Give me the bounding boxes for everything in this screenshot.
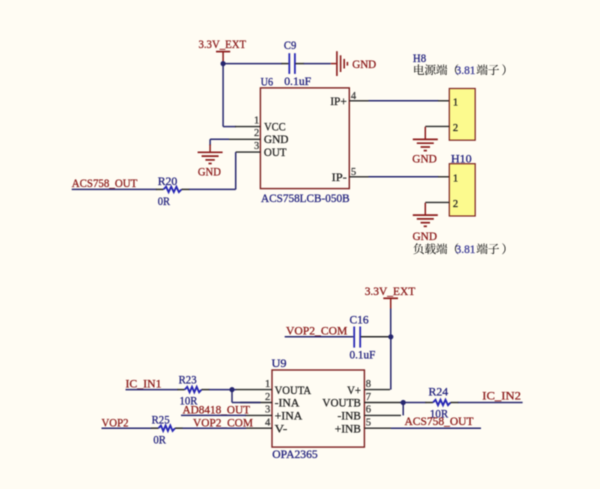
U9 pin 3 +INA [245,405,303,423]
ground symbol under H10 [413,203,438,243]
svg-text:IC_IN1: IC_IN1 [126,376,162,390]
svg-text:3: 3 [265,405,270,416]
svg-text:H8: H8 [413,51,426,65]
U6 pin 1 VCC [235,115,286,133]
wire U6 pin4 to H8 pin1 [369,100,450,102]
svg-text:R20: R20 [158,174,178,188]
svg-text:8: 8 [366,379,371,390]
net label ACS758_OUT (U9 pin5) [391,414,481,428]
svg-text:5: 5 [351,167,356,178]
U6 pin 2 GND [228,128,289,146]
resistor R23 10R [179,372,202,407]
svg-text:1: 1 [453,174,458,185]
U6 pin 4 IP+ [330,91,369,108]
net label ACS758_OUT [72,176,164,190]
svg-text:VOUTB: VOUTB [322,396,361,410]
U9 pin 2 -INA [240,392,300,410]
comment 负载端（3.81端子） [413,243,505,256]
net label IC_IN1 [126,376,185,390]
svg-text:VOUTA: VOUTA [275,383,312,397]
U9 pin 1 VOUTA [236,379,312,397]
junction under 3.3V_EXT [221,61,226,66]
svg-text:+INB: +INB [335,421,361,435]
capacitor C9 0.1uF [284,38,312,88]
wire U6 pin5 to H10 pin1 [369,176,450,178]
svg-text:C16: C16 [350,313,369,327]
resistor R25 0R [152,412,175,446]
svg-text:2: 2 [453,199,458,210]
ground symbol under H8 [412,127,438,166]
svg-text:3.3V_EXT: 3.3V_EXT [365,284,416,298]
svg-text:IC_IN2: IC_IN2 [482,389,521,403]
connector H8 [413,51,475,140]
svg-text:3: 3 [254,141,259,152]
svg-text:GND: GND [412,152,437,166]
net label IC_IN2 [451,389,523,403]
svg-text:R23: R23 [179,372,197,386]
svg-text:4: 4 [351,91,357,102]
junction on pin7 wire [401,400,406,405]
svg-text:GND: GND [352,57,376,71]
wire junction down to U9 pin8 [390,337,392,390]
wire C16 to junction [361,336,389,338]
svg-text:R24: R24 [429,385,449,399]
svg-text:VOP2_COM: VOP2_COM [193,415,253,429]
svg-text:U9: U9 [272,356,287,370]
svg-text:3.81: 3.81 [456,244,476,256]
svg-text:IP+: IP+ [330,94,347,108]
svg-text:2: 2 [265,392,270,403]
U9 pin 7 VOUTB [322,392,400,410]
ground symbol under U6 pin2 [198,145,223,179]
wire power to junction [390,309,392,337]
net label VOP2 [102,415,159,429]
wire U6 pin3 down to R20 net [235,152,237,189]
wire U6 pin2 to ground [210,139,229,145]
U9 pin 8 V+ [347,379,390,397]
svg-text:ACS758_OUT: ACS758_OUT [72,176,138,190]
svg-text:2: 2 [254,128,259,139]
capacitor C16 0.1uF [350,313,376,362]
resistor R20 0R [158,174,182,208]
U9 pin 5 +INB [335,418,392,436]
wire junction to U6 pin 1 [223,64,236,127]
svg-text:R25: R25 [152,412,170,426]
svg-text:VCC: VCC [264,119,286,133]
resistor R24 10R [429,385,451,421]
svg-text:GND: GND [264,132,289,146]
svg-text:VOP2: VOP2 [102,415,129,429]
wire R20 to U6 pin3 [182,188,190,190]
net label VOP2_COM (pin4 wire) [175,415,253,429]
svg-text:3.3V_EXT: 3.3V_EXT [198,37,246,51]
svg-text:7: 7 [366,392,371,403]
IC U6 ACS758LCB-050B body [260,75,349,205]
svg-text:OPA2365: OPA2365 [272,447,317,461]
svg-text:ACS758_OUT: ACS758_OUT [405,414,475,428]
wire H8 pin2 to ground [425,125,449,127]
svg-text:C9: C9 [284,38,297,52]
U6 pin 5 IP- [332,167,370,184]
comment 电源端（3.81端子） [414,64,505,77]
svg-text:ACS758LCB-050B: ACS758LCB-050B [261,191,350,205]
wire U9 pin6 up to junction [402,403,404,416]
wire junction to C9 [223,63,282,65]
IC U9 OPA2365 body [272,356,365,461]
svg-text:0R: 0R [158,194,170,208]
power ground GND (right of C9) [331,51,377,76]
svg-text:-INA: -INA [275,396,300,410]
wire R23 to U9 pin1 [202,389,210,391]
connector H10 [449,152,475,216]
svg-text:AD8418_OUT: AD8418_OUT [183,402,251,416]
U9 pin 4 V- [245,418,287,436]
svg-text:IP-: IP- [332,170,347,184]
svg-text:V-: V- [275,421,288,435]
power port 3.3V_EXT (bottom) [365,284,416,308]
junction at C16 [388,334,393,339]
power port 3.3V_EXT [198,37,246,63]
wire C9 to GND power port [296,63,305,65]
svg-text:V+: V+ [347,383,361,397]
svg-text:OUT: OUT [264,145,287,159]
svg-text:U6: U6 [261,75,274,89]
svg-text:VOP2_COM: VOP2_COM [286,324,348,338]
svg-text:1: 1 [254,115,259,126]
svg-text:5: 5 [366,418,371,429]
U6 pin 3 OUT [236,141,287,159]
svg-text:3.81: 3.81 [456,65,476,77]
wire junction down to pin2 [232,390,261,403]
wire H10 pin2 to ground [425,201,449,203]
svg-text:1: 1 [265,379,270,390]
svg-text:0R: 0R [153,432,166,446]
junction on pin1 wire [229,387,234,392]
wire U9 pin7 to R24 [400,402,426,404]
svg-text:1: 1 [453,98,458,109]
net label AD8418_OUT [181,402,251,416]
net label VOP2_COM (top) [285,324,354,338]
svg-text:4: 4 [265,418,271,429]
svg-text:GND: GND [413,229,438,243]
svg-text:0.1uF: 0.1uF [284,74,311,88]
U9 pin 6 -INB [338,405,402,423]
svg-text:2: 2 [453,123,458,134]
svg-text:6: 6 [366,405,371,416]
svg-text:GND: GND [198,165,221,179]
svg-text:0.1uF: 0.1uF [350,348,376,362]
